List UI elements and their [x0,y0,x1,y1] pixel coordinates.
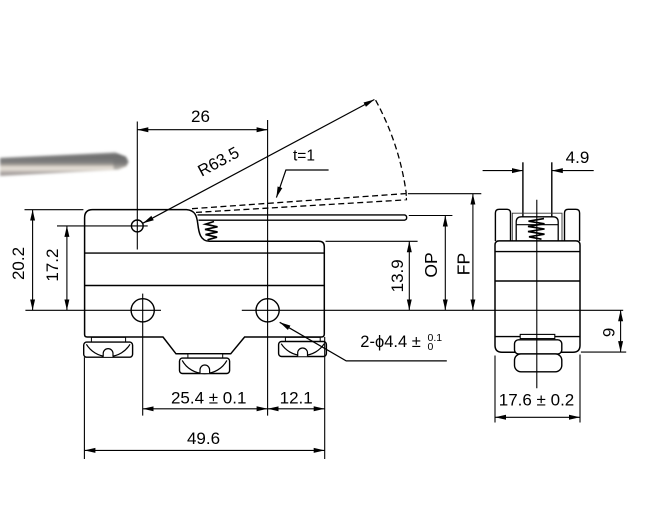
side bottom screw body [515,340,562,354]
left mounting hole [131,299,154,322]
dimension 20.2 [9,210,84,311]
dimension 17.6 +-0.2 [495,355,580,423]
FP top extension line [408,193,481,195]
side body line 1 [495,251,580,253]
lever (solid, operating position) [198,215,407,220]
side plunger inner line [516,224,558,226]
OP top extension line [409,215,453,217]
12.1 / 49.6 right extension line [324,337,326,459]
side bottom screw washer [520,334,555,338]
pivot horizontal centerline / 17.2 extension [57,225,148,227]
side body line 2 [495,280,580,282]
leader 2-phi4.4 [280,322,447,361]
side spring [528,219,545,240]
terminal screw left: dome arc [86,344,130,356]
svg-text:26: 26 [191,107,210,126]
left hole horizontal centerline / 20.2 extension [25,309,161,311]
terminal screw left: washer bar [91,337,125,342]
svg-text:OP: OP [421,252,441,277]
switch body outline (front view) [85,210,325,354]
lever dashed free position lower edge [196,200,406,213]
dimension 4.9 [483,148,594,171]
svg-text:17.6 ± 0.2: 17.6 ± 0.2 [499,391,575,410]
svg-text:49.6: 49.6 [187,429,220,448]
dimension 49.6 [84,429,324,450]
terminal screw right: dome arc [281,344,324,356]
terminal screw left: slot [103,349,113,357]
side plunger block [516,217,558,241]
terminal screw right: head pan [279,342,327,357]
dimension FP [454,194,474,311]
left hole vertical centerline / 25.4 extension [142,294,144,416]
svg-text:2-ϕ4.4 ±: 2-ϕ4.4 ± [360,333,421,351]
lever dashed free position upper edge [192,194,406,209]
dimension OP [421,216,445,311]
dimension R63.5 leader [143,100,375,224]
dimension 26 [137,107,267,130]
svg-text:0: 0 [428,341,434,353]
dimension 25.4 +-0.1 [143,389,268,409]
grey probe rod photo overlap top-left [0,152,129,176]
svg-text:t=1: t=1 [293,148,315,165]
dashed swing arc [376,100,407,193]
terminal screw middle: head pan [180,358,230,373]
13.9 top extension line [326,240,418,242]
lever dashed tip cap [405,193,407,200]
side ear right [565,209,580,241]
dimension 12.1 [268,389,325,409]
terminal screw middle: dome arc [182,360,227,373]
side lever edge right line [551,162,553,217]
side bottom screw nut [515,354,562,372]
terminal screw left: head pan [84,342,133,357]
terminal screw right: washer bar [285,337,320,341]
svg-text:17.2: 17.2 [43,249,62,282]
side body line 3 [495,336,580,338]
dimension t=1 leader [276,148,328,198]
terminal screw middle: slot [200,365,210,373]
side ear left [495,209,510,241]
svg-text:FP: FP [454,253,474,275]
side inner frame [512,213,562,241]
side body outline [495,241,580,352]
side lever edge left line [522,162,524,217]
dimension 13.9 [388,241,410,310]
right hole vertical centerline / 26 + 25.4 + 12.1 extension [267,120,269,416]
svg-text:4.9: 4.9 [566,148,590,167]
spring (front view) [205,222,218,240]
right mounting hole [256,299,279,322]
terminal screw middle: washer bar [188,354,223,359]
svg-text:12.1: 12.1 [280,389,313,408]
49.6 left extension line [83,357,85,459]
body division line lower [85,285,325,287]
dimension 9 [581,310,626,352]
svg-text:25.4 ± 0.1: 25.4 ± 0.1 [171,389,247,408]
pivot hole [131,220,143,232]
pivot vertical centerline / 26 extension [136,122,138,250]
svg-text:13.9: 13.9 [388,259,407,292]
baseline through right hole to side view [242,309,623,311]
terminal screw right: slot [298,348,308,356]
dimension 17.2 [43,226,67,310]
side vertical centerline [536,200,538,388]
svg-text:20.2: 20.2 [9,247,28,280]
svg-text:9: 9 [600,328,619,337]
body division line upper [85,252,325,254]
